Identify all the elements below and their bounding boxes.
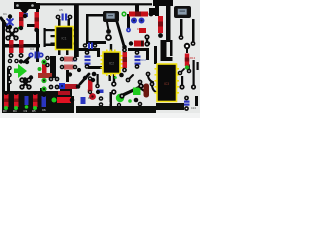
svg-text:C4: C4 <box>30 47 34 51</box>
svg-text:C3: C3 <box>24 109 28 113</box>
svg-text:R13: R13 <box>190 56 196 60</box>
svg-text:C17: C17 <box>141 58 147 62</box>
svg-text:D3: D3 <box>88 96 92 100</box>
svg-text:C6: C6 <box>42 108 46 112</box>
svg-text:R5: R5 <box>32 109 36 113</box>
svg-text:IC1: IC1 <box>62 37 67 41</box>
svg-text:C1: C1 <box>3 12 7 16</box>
svg-text:IC3: IC3 <box>164 82 169 86</box>
svg-text:C10: C10 <box>87 89 92 93</box>
svg-text:IC2: IC2 <box>109 62 114 66</box>
svg-text:C16: C16 <box>72 59 77 63</box>
svg-text:R3: R3 <box>3 109 7 113</box>
svg-text:R4: R4 <box>13 109 17 113</box>
svg-text:C13: C13 <box>191 106 196 110</box>
svg-text:D5: D5 <box>137 27 141 31</box>
svg-text:C5: C5 <box>59 8 63 12</box>
